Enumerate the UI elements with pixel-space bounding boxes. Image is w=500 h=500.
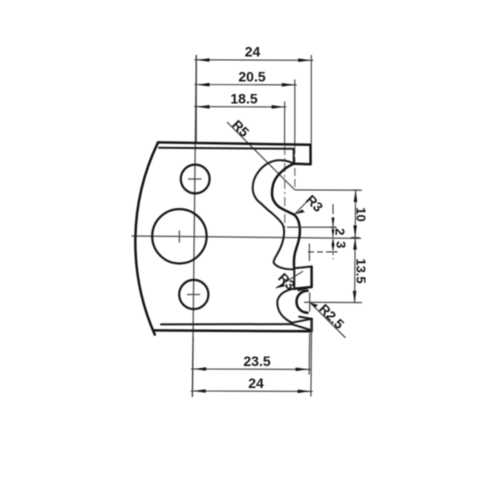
wire bevel bulge and valley: [269, 211, 294, 270]
wire dimension line 23.5: [191, 368, 311, 370]
wire bevel groove R2.5: [277, 289, 294, 323]
centerline tick small bottom: [187, 294, 200, 296]
wire extension 18.5 right: [284, 102, 286, 144]
centerline tick small top: [188, 178, 202, 180]
wire dimension line 18.5: [194, 106, 286, 108]
centerline vertical: [192, 55, 196, 397]
wire bottom edge: [153, 329, 312, 332]
centerline horizontal: [132, 236, 362, 238]
wire extension bottom left: [192, 337, 195, 397]
wire tooth face: [295, 267, 312, 289]
wire tooth top slant: [294, 267, 311, 269]
wire bevel groove R5: [253, 160, 294, 211]
svg-text:2: 2: [332, 228, 347, 235]
wire extension bottom right: [308, 333, 311, 375]
centerline R2.5 cross: [304, 293, 310, 312]
wire leader R3 lower: [276, 271, 303, 288]
wire leader R3 upper: [295, 197, 311, 214]
wire bevel corner vertical: [293, 149, 295, 164]
wire top edge: [158, 142, 311, 144]
wire tooth bottom slant thin: [299, 287, 312, 291]
svg-text:24: 24: [248, 375, 264, 391]
wire profile bulge R3 face: [279, 207, 300, 269]
wire bottom wedge face: [310, 319, 313, 331]
wire leader R2.5: [310, 302, 346, 338]
wire bottom wedge slants: [292, 319, 312, 331]
wire bevel bottom: [161, 323, 292, 325]
wire dimension line 24 bottom: [191, 390, 313, 392]
wire bevel top: [159, 148, 294, 149]
wire profile groove R5 face: [272, 164, 294, 207]
wire extension 3 bottom: [308, 251, 338, 253]
svg-text:13.5: 13.5: [353, 258, 368, 283]
wire dimension line 10 13.5 vertical: [355, 190, 356, 303]
svg-text:24: 24: [245, 44, 261, 60]
wire extension right 24 top: [310, 55, 312, 144]
wire right face top wedge: [294, 145, 310, 165]
wire extension 13.5 bottom: [310, 301, 362, 303]
hole small top: [181, 165, 210, 194]
hole big middle: [152, 209, 206, 263]
centerline tick 3ref: [308, 244, 310, 262]
svg-text:10: 10: [353, 207, 368, 221]
wire extension left top: [195, 55, 197, 143]
wire dimension line 2 3: [332, 204, 334, 259]
svg-text:23.5: 23.5: [243, 353, 270, 369]
wire groove exit slant bottom: [299, 317, 312, 319]
centerline tick big: [178, 231, 180, 243]
wire extension 20.5 right: [294, 80, 296, 144]
wire left arc: [135, 142, 158, 334]
svg-text:20.5: 20.5: [238, 69, 265, 85]
wire dimension line 24 top: [194, 59, 313, 62]
wire dimension line 20.5: [194, 84, 296, 86]
svg-text:18.5: 18.5: [230, 90, 257, 106]
hole small bottom: [179, 280, 208, 309]
svg-text:3: 3: [333, 241, 348, 248]
wire tooth bevel vertical: [293, 269, 295, 289]
wire leader R5: [227, 122, 295, 190]
wire groove R2.5 face: [297, 291, 308, 313]
wire extension 10 top: [295, 189, 362, 191]
wire extension 2 top: [287, 226, 337, 228]
